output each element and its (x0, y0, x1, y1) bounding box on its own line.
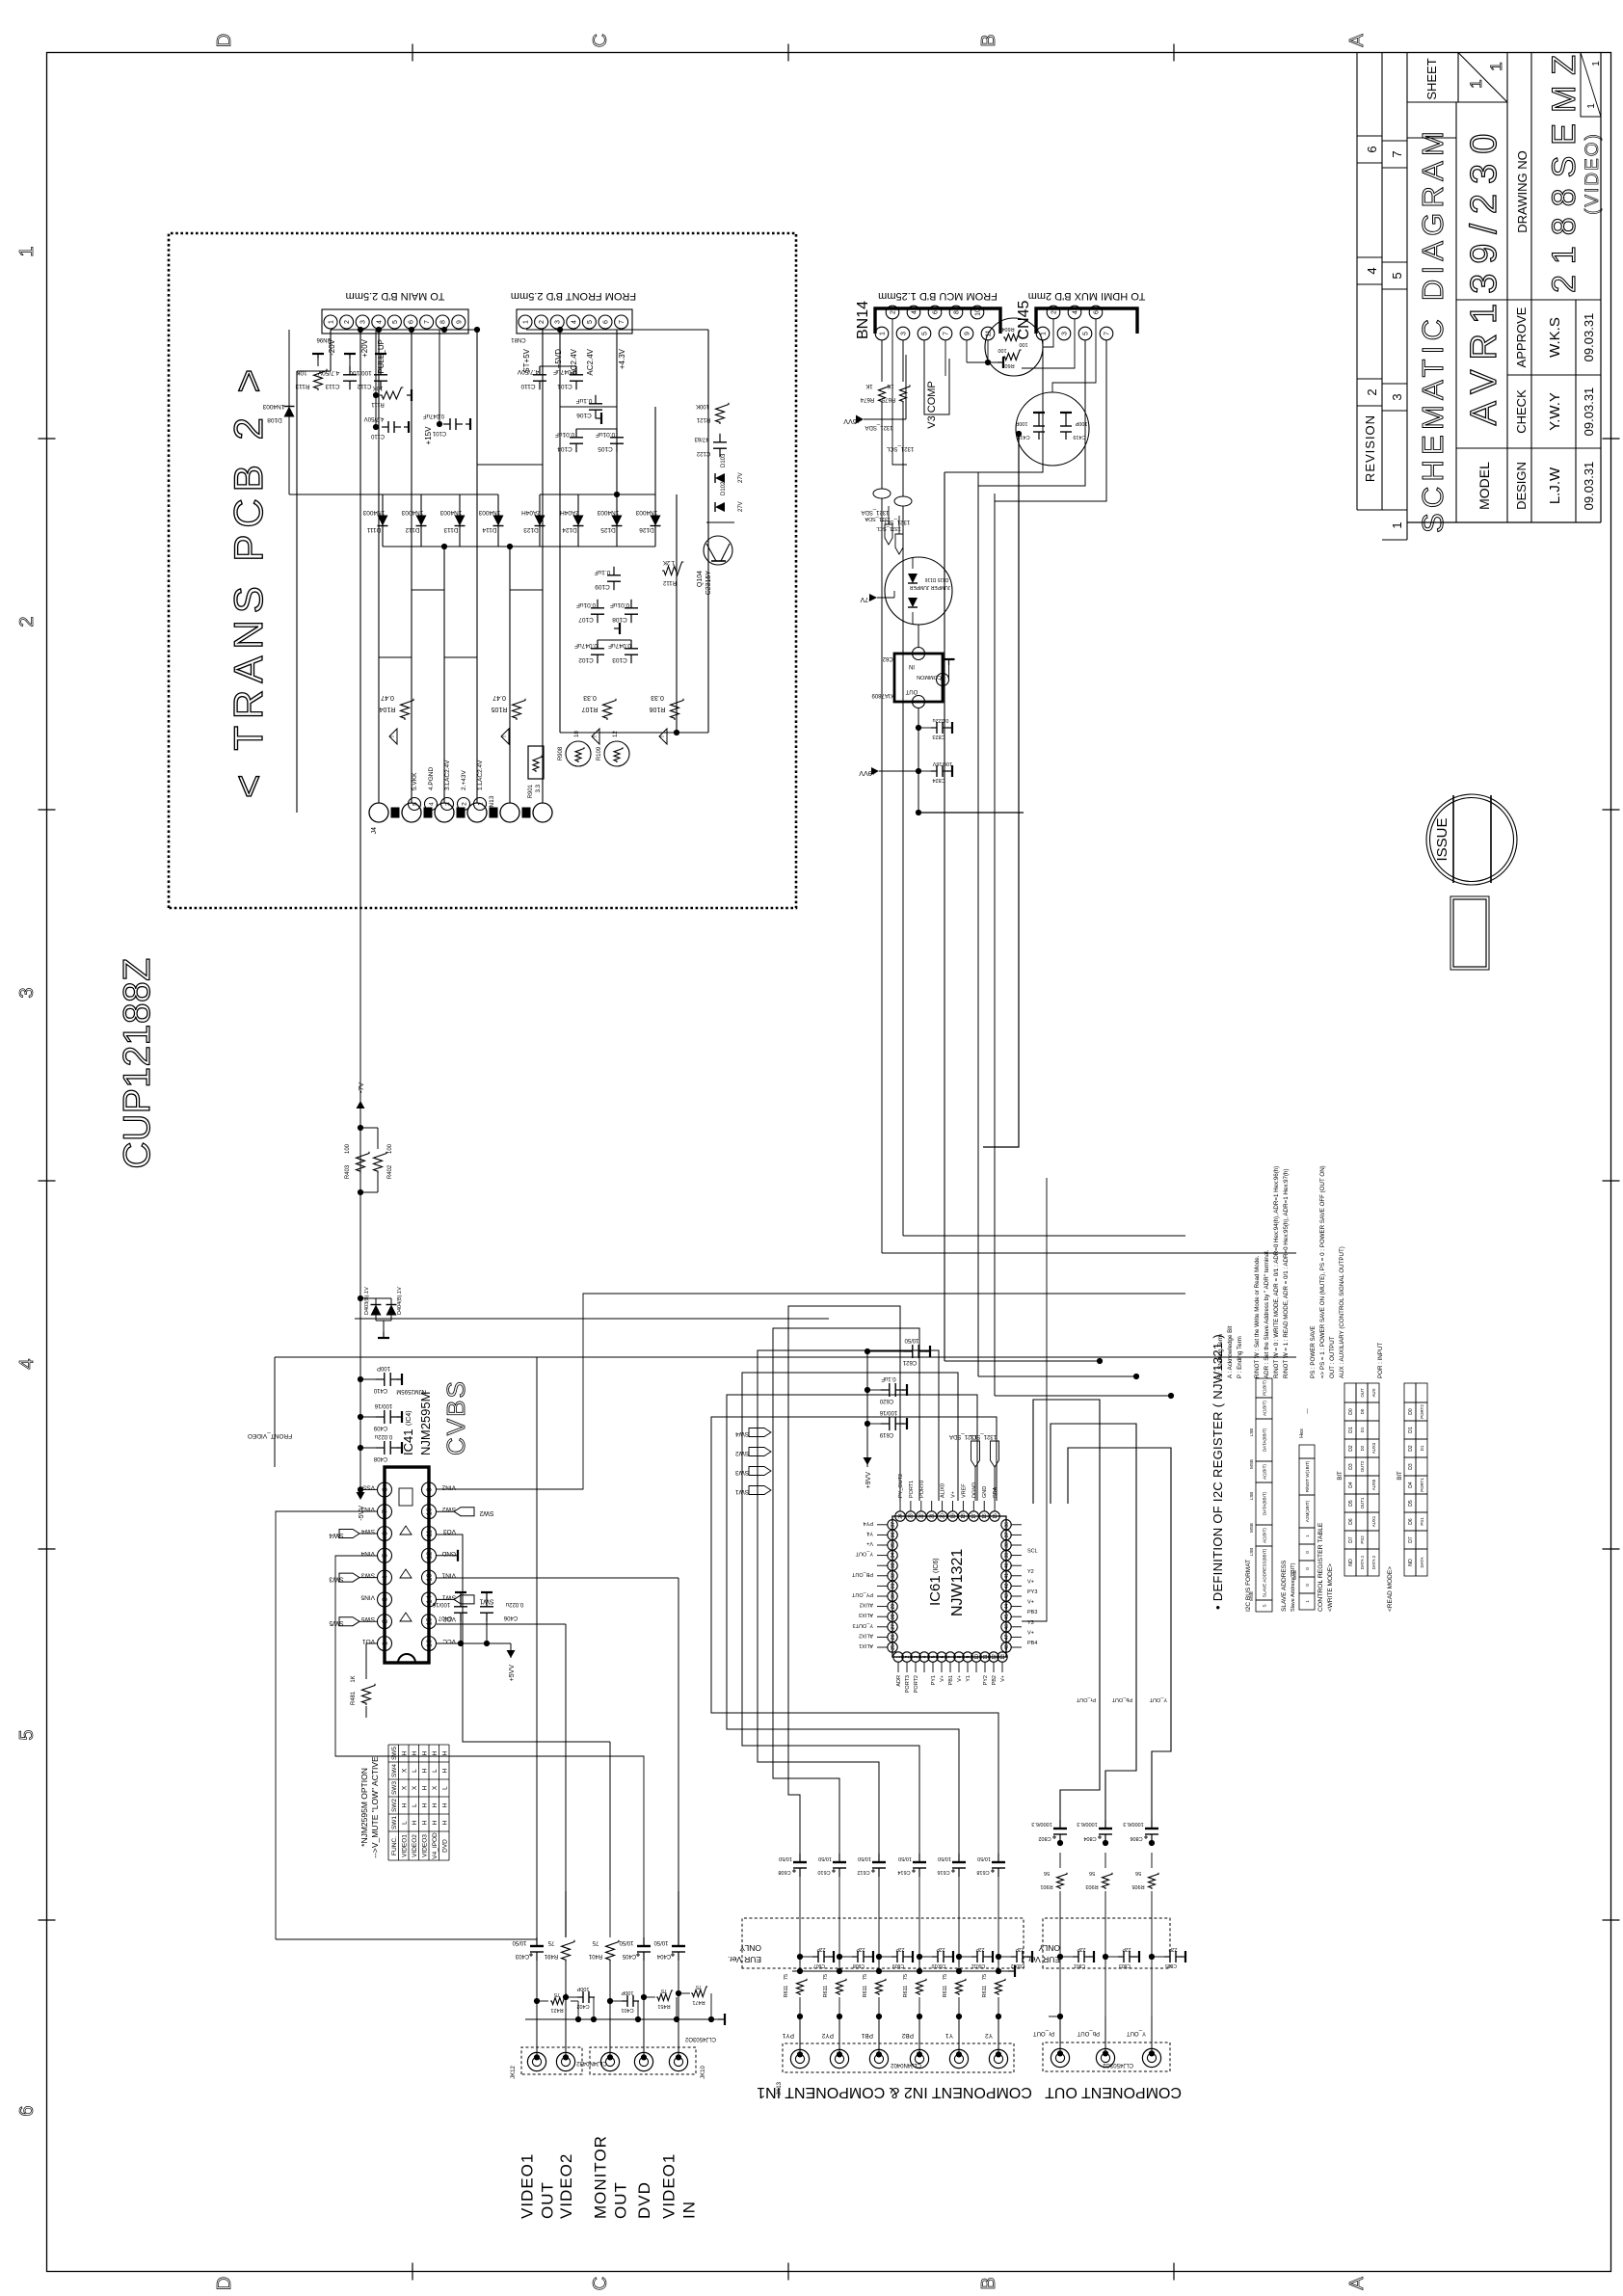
svg-text:R611: R611 (784, 1986, 789, 1998)
svg-text:BN14: BN14 (855, 301, 871, 339)
svg-text:47: 47 (1004, 1634, 1010, 1640)
svg-text:C608: C608 (778, 1869, 790, 1875)
svg-text:D112: D112 (405, 526, 419, 533)
svg-text:-7V: -7V (860, 596, 870, 602)
svg-text:D111: D111 (366, 526, 381, 533)
svg-text:SLAVE ADDRESS(8BIT): SLAVE ADDRESS(8BIT) (1263, 1548, 1267, 1597)
svg-text:POR : INPUT: POR : INPUT (1377, 1343, 1384, 1378)
svg-text:8: 8 (957, 1655, 963, 1658)
svg-text:2A04H: 2A04H (521, 509, 541, 516)
svg-text:AUX : AUXILIARY (CONTROL SIGNA: AUX : AUXILIARY (CONTROL SIGNAL OUTPUT) (1339, 1246, 1345, 1378)
svg-text:26: 26 (891, 1634, 896, 1640)
svg-text:PORT2: PORT2 (1420, 1404, 1424, 1419)
svg-text:1321_SDA: 1321_SDA (865, 424, 892, 430)
svg-text:V+: V+ (940, 1675, 945, 1682)
svg-text:V+: V+ (951, 1491, 957, 1498)
svg-text:9: 9 (965, 332, 971, 335)
svg-text:R903: R903 (1085, 1883, 1098, 1889)
svg-text:3: 3 (917, 700, 922, 704)
svg-text:SW2: SW2 (479, 1509, 493, 1516)
svg-text:2188SEMZ: 2188SEMZ (1546, 44, 1583, 293)
svg-text:100P: 100P (1015, 420, 1027, 426)
svg-text:4.7/50V: 4.7/50V (317, 369, 339, 376)
svg-text:AUX: AUX (1371, 1388, 1376, 1397)
svg-text:DESIGN: DESIGN (1514, 462, 1529, 510)
svg-text:L.J.W: L.J.W (1547, 467, 1563, 504)
svg-text:1: 1 (16, 246, 38, 256)
svg-text:!: ! (389, 735, 396, 737)
svg-text:Y2: Y2 (985, 2032, 993, 2039)
svg-text:PS : POWER SAVE: PS : POWER SAVE (1310, 1325, 1317, 1378)
svg-text:10: 10 (574, 731, 580, 737)
svg-text:22P: 22P (1122, 1946, 1131, 1952)
svg-text:2: 2 (905, 1655, 911, 1658)
svg-text:1K: 1K (865, 383, 872, 388)
svg-text:CLJ4N0432: CLJ4N0432 (575, 2060, 606, 2066)
svg-text:+5VD: +5VD (554, 349, 563, 368)
svg-text:Pb_OUT: Pb_OUT (1077, 2030, 1100, 2036)
svg-text:C110: C110 (520, 383, 535, 389)
svg-text:L: L (412, 1769, 418, 1773)
svg-text:R901: R901 (1040, 1883, 1052, 1889)
svg-text:AVR139/230: AVR139/230 (1464, 124, 1504, 426)
svg-text:A2M(1BIT): A2M(1BIT) (1305, 1500, 1310, 1522)
svg-text:1: 1 (1305, 1600, 1310, 1603)
svg-text:10/50: 10/50 (653, 1939, 669, 1945)
svg-text:36: 36 (891, 1532, 896, 1537)
svg-text:D108: D108 (267, 416, 282, 423)
svg-text:PY2: PY2 (983, 1675, 989, 1685)
svg-text:0: 0 (1305, 1567, 1310, 1570)
svg-text:COMPONENT IN2 & COMPONENT: COMPONENT IN2 & COMPONENT IN1 (757, 2084, 1032, 2100)
svg-text:H: H (442, 1768, 449, 1773)
svg-text:5: 5 (412, 802, 418, 806)
svg-text:L: L (412, 1803, 418, 1807)
svg-text:CHECK: CHECK (1514, 389, 1529, 434)
svg-text:W.K.S: W.K.S (1547, 317, 1563, 358)
svg-text:75: 75 (784, 1974, 789, 1980)
svg-text:SW2: SW2 (391, 1799, 398, 1812)
svg-text:1.2K: 1.2K (663, 559, 675, 565)
svg-text:0.047uF: 0.047uF (574, 642, 598, 649)
svg-text:46: 46 (1004, 1624, 1010, 1630)
svg-text:B: B (978, 34, 999, 46)
svg-text:7: 7 (424, 320, 431, 324)
svg-text:C108: C108 (612, 616, 627, 623)
svg-text:48: 48 (1004, 1644, 1010, 1650)
svg-text:R611: R611 (943, 1986, 948, 1998)
svg-text:1N4003: 1N4003 (262, 403, 284, 410)
svg-text:PB2: PB2 (992, 1675, 998, 1685)
svg-text:D404(B).1V: D404(B).1V (397, 1287, 403, 1315)
svg-text:A: A (1346, 34, 1368, 47)
svg-text:1: 1 (523, 320, 530, 324)
svg-text:0.47: 0.47 (492, 694, 506, 701)
svg-text:Pb_OUT: Pb_OUT (1111, 1696, 1132, 1702)
svg-text:PY_OUT2: PY_OUT2 (898, 1474, 904, 1498)
svg-text:D2: D2 (1360, 1445, 1365, 1451)
svg-text:L: L (402, 1821, 409, 1825)
svg-text:10: 10 (975, 308, 982, 316)
svg-text:D5: D5 (1348, 1500, 1354, 1507)
svg-text:DRAWING NO: DRAWING NO (1515, 150, 1530, 232)
svg-text:MSB: MSB (1249, 1523, 1254, 1533)
svg-text:C102: C102 (578, 656, 594, 663)
svg-text:75: 75 (943, 1974, 948, 1980)
svg-text:7: 7 (1104, 332, 1111, 335)
svg-text:27: 27 (891, 1624, 896, 1630)
svg-text:10/50: 10/50 (898, 1855, 912, 1861)
svg-text:DATA 1: DATA 1 (1360, 1555, 1365, 1569)
svg-text:(IC4): (IC4) (406, 1410, 412, 1426)
svg-text:22P: 22P (936, 1946, 945, 1952)
svg-text:CUP12188Z: CUP12188Z (117, 957, 158, 1168)
svg-text:C805: C805 (1165, 1962, 1177, 1968)
svg-text:EUR Ver.: EUR Ver. (728, 1955, 761, 1964)
svg-text:NJM2595M: NJM2595M (418, 1392, 433, 1455)
svg-text:SCHEMATIC DIAGRAM: SCHEMATIC DIAGRAM (1416, 126, 1450, 533)
svg-text:OUT2: OUT2 (1360, 1460, 1365, 1472)
svg-text:H: H (422, 1802, 429, 1807)
svg-text:OUT : OUTPUT: OUT : OUTPUT (1329, 1336, 1336, 1378)
svg-text:PB3: PB3 (1027, 1610, 1037, 1615)
svg-text:ONLY: ONLY (1038, 1943, 1060, 1953)
svg-text:CLJ4503O2: CLJ4503O2 (1102, 2062, 1133, 2068)
svg-text:LSB: LSB (1249, 1548, 1254, 1557)
svg-text:H: H (432, 1802, 439, 1807)
svg-text:+4.3V: +4.3V (618, 348, 626, 369)
svg-text:BIT: BIT (1338, 1471, 1344, 1481)
svg-text:1000/6.3: 1000/6.3 (1077, 1821, 1097, 1827)
svg-text:2: 2 (16, 616, 38, 627)
svg-text:PORT2: PORT2 (914, 1675, 919, 1693)
svg-text:CLJ4503O2: CLJ4503O2 (684, 2036, 716, 2042)
svg-text:IC41: IC41 (401, 1429, 415, 1455)
svg-text:ALIX0: ALIX0 (941, 1483, 946, 1498)
svg-text:IC62: IC62 (882, 655, 894, 661)
svg-text:C101: C101 (557, 383, 572, 389)
svg-text:10: 10 (974, 1654, 980, 1660)
svg-text:5: 5 (1083, 332, 1090, 335)
svg-text:TO MAIN B'D 2.5mm: TO MAIN B'D 2.5mm (346, 290, 445, 302)
svg-text:VIDEO1: VIDEO1 (660, 2153, 678, 2219)
svg-text:16: 16 (425, 1640, 434, 1647)
svg-text:C: C (590, 34, 611, 47)
svg-text:22P: 22P (975, 1946, 985, 1952)
svg-text:13: 13 (425, 1573, 434, 1581)
svg-text:4: 4 (381, 1576, 389, 1580)
svg-text:R611: R611 (823, 1986, 829, 1998)
svg-text:Y_OUT3: Y_OUT3 (853, 1622, 873, 1628)
svg-text:!: ! (659, 735, 666, 737)
svg-text:13: 13 (1000, 1654, 1006, 1660)
svg-text:C419: C419 (1073, 434, 1085, 440)
svg-text:100P: 100P (377, 1365, 390, 1371)
svg-text:PY1: PY1 (782, 2032, 794, 2039)
svg-text:MODEL: MODEL (1477, 462, 1492, 510)
svg-text:47/63: 47/63 (694, 436, 709, 441)
svg-text:D7: D7 (1408, 1536, 1414, 1543)
svg-text:2: 2 (461, 802, 467, 806)
svg-text:ALIX2: ALIX2 (859, 1632, 873, 1638)
svg-text:23: 23 (909, 1513, 915, 1519)
svg-text:3: 3 (16, 987, 38, 998)
svg-text:H: H (442, 1802, 449, 1807)
svg-text:!: ! (592, 735, 599, 737)
svg-text:6: 6 (409, 320, 415, 324)
svg-text:C608: C608 (853, 1962, 865, 1968)
svg-text:PB1: PB1 (861, 2032, 873, 2039)
svg-text:4.PGND: 4.PGND (428, 766, 435, 790)
svg-text:PY4: PY4 (864, 1520, 873, 1526)
svg-text:V+: V+ (866, 1540, 873, 1546)
svg-text:ADR: ADR (896, 1675, 902, 1687)
svg-text:5: 5 (381, 1554, 389, 1558)
svg-text:LSB: LSB (1249, 1428, 1254, 1437)
svg-text:22P: 22P (895, 1946, 905, 1952)
svg-text:D1: D1 (1348, 1427, 1354, 1433)
svg-text:1: 1 (1041, 332, 1048, 335)
svg-text:C610: C610 (817, 1869, 830, 1875)
svg-text:SW5: SW5 (329, 1619, 343, 1626)
svg-text:DVD: DVD (442, 1839, 449, 1853)
svg-text:D103: D103 (721, 453, 727, 467)
svg-text:C2315Y: C2315Y (705, 571, 712, 596)
svg-text:V+: V+ (1000, 1675, 1006, 1682)
svg-text:09.03.31: 09.03.31 (1582, 387, 1596, 437)
svg-text:0.47: 0.47 (381, 694, 394, 701)
svg-text:20: 20 (940, 1513, 945, 1519)
svg-text:PORT1: PORT1 (909, 1481, 915, 1498)
svg-text:C104: C104 (557, 445, 572, 452)
svg-text:100: 100 (1019, 341, 1027, 347)
svg-text:1321_SCL: 1321_SCL (886, 445, 914, 451)
svg-text:33: 33 (891, 1562, 896, 1568)
svg-text:R611: R611 (982, 1986, 988, 1998)
svg-text:Pr_OUT: Pr_OUT (1076, 1696, 1096, 1702)
svg-text:1: 1 (896, 1655, 902, 1658)
svg-text:9: 9 (425, 1487, 434, 1491)
svg-text:R/NOT W = 1 : READ MODE, ADR: R/NOT W = 1 : READ MODE, ADR = 0/1 : ADR… (1283, 1168, 1290, 1378)
svg-text:1N4003: 1N4003 (635, 509, 657, 516)
svg-text:1N4003: 1N4003 (362, 509, 385, 516)
svg-text:1: 1 (1467, 79, 1485, 88)
svg-text:Y_OUT: Y_OUT (1127, 2030, 1146, 2036)
svg-text:SW3: SW3 (391, 1781, 398, 1795)
svg-text:1: 1 (329, 320, 335, 324)
svg-text:C101: C101 (432, 430, 446, 436)
svg-text:C620: C620 (879, 1398, 893, 1403)
svg-text:DATA: DATA (1420, 1557, 1424, 1567)
svg-text:VIDEO1: VIDEO1 (402, 1834, 409, 1857)
svg-text:27V: 27V (738, 501, 744, 512)
svg-text:VIDEO1: VIDEO1 (519, 2153, 537, 2219)
svg-text:SHEET: SHEET (1424, 58, 1439, 99)
svg-text:6: 6 (1094, 310, 1101, 314)
svg-text:AC2.4V: AC2.4V (586, 348, 595, 375)
svg-text:MONITOR: MONITOR (592, 2135, 610, 2219)
svg-text:22P: 22P (1168, 1946, 1178, 1952)
svg-text:D1: D1 (1408, 1427, 1414, 1433)
svg-text:NJM2595M: NJM2595M (396, 1388, 426, 1394)
svg-text:H: H (412, 1750, 418, 1755)
svg-text:D0: D0 (1408, 1408, 1414, 1415)
svg-text:R112: R112 (662, 579, 677, 585)
svg-text:KIA7809: KIA7809 (871, 692, 894, 698)
svg-text:1: 1 (1591, 61, 1602, 67)
svg-text:3: 3 (555, 320, 562, 324)
svg-text:40: 40 (1004, 1562, 1010, 1568)
svg-text:1000/6.3: 1000/6.3 (1031, 1821, 1051, 1827)
svg-text:COMPONENT OUT: COMPONENT OUT (1045, 2084, 1182, 2100)
svg-text:22P: 22P (856, 1946, 865, 1952)
svg-text:12: 12 (425, 1552, 434, 1560)
svg-text:11: 11 (425, 1530, 434, 1537)
svg-text:PY1: PY1 (931, 1675, 937, 1685)
svg-text:C804: C804 (1083, 1835, 1096, 1841)
svg-text:=> PS = 1 : POWER SAVE ON (MUT: => PS = 1 : POWER SAVE ON (MUTE), PS = 0… (1319, 1165, 1326, 1378)
svg-text:PS2: PS2 (1360, 1535, 1365, 1544)
svg-text:R109: R109 (597, 746, 602, 761)
svg-text:10/50: 10/50 (904, 1337, 919, 1343)
svg-text:R421: R421 (550, 2007, 563, 2013)
svg-text:R451: R451 (657, 2003, 670, 2009)
svg-text:R901: R901 (528, 784, 534, 798)
svg-text:R107: R107 (582, 706, 599, 712)
svg-text:-20V: -20V (328, 338, 336, 356)
svg-text:R402: R402 (387, 1164, 393, 1179)
svg-text:4: 4 (16, 1358, 38, 1369)
svg-text:75: 75 (863, 1974, 868, 1980)
svg-text:36: 36 (1004, 1522, 1010, 1528)
svg-text:0: 0 (1305, 1551, 1310, 1554)
svg-text:3: 3 (444, 802, 451, 806)
svg-text:2: 2 (891, 310, 897, 314)
svg-text:PORT0: PORT0 (919, 1481, 925, 1498)
svg-text:C409: C409 (373, 1425, 387, 1430)
svg-text:C105: C105 (598, 445, 613, 452)
svg-text:MSB: MSB (1292, 1570, 1297, 1580)
svg-text:PS1: PS1 (1420, 1517, 1424, 1526)
svg-text:12: 12 (992, 1654, 998, 1660)
svg-text:D3: D3 (1408, 1463, 1414, 1470)
svg-text:C6012: C6012 (1010, 1962, 1024, 1968)
svg-text:1: 1 (477, 802, 484, 806)
svg-text:2A04H: 2A04H (560, 509, 579, 516)
svg-text:VO3: VO3 (443, 1528, 456, 1535)
svg-text:V3 COMP: V3 COMP (926, 381, 938, 429)
svg-text:5.VKK: 5.VKK (412, 772, 418, 790)
svg-text:FROM MCU B'D 1.25mm: FROM MCU B'D 1.25mm (878, 290, 998, 302)
svg-text:Y_OUT: Y_OUT (855, 1551, 873, 1557)
svg-text:R121: R121 (696, 416, 710, 422)
svg-text:C823: C823 (932, 734, 945, 739)
svg-text:09.03.31: 09.03.31 (1582, 313, 1596, 362)
svg-text:0.1uF: 0.1uF (881, 1375, 896, 1381)
svg-text:FUNC.: FUNC. (391, 1836, 398, 1855)
svg-text:56: 56 (1044, 1870, 1050, 1876)
svg-text:6: 6 (603, 320, 610, 324)
svg-text:+9VV: +9VV (859, 769, 876, 776)
svg-text:0.33: 0.33 (651, 694, 664, 701)
svg-text:09.03.31: 09.03.31 (1582, 462, 1596, 511)
svg-text:C618: C618 (976, 1869, 989, 1875)
svg-text:34: 34 (891, 1553, 896, 1559)
svg-text:IC61: IC61 (927, 1575, 944, 1606)
svg-text:EUR Ver.: EUR Ver. (1026, 1955, 1060, 1964)
svg-text:1: 1 (1305, 1535, 1310, 1537)
svg-text:CN13: CN13 (489, 795, 495, 812)
svg-text:2: 2 (539, 320, 545, 324)
svg-text:2: 2 (1051, 310, 1058, 314)
svg-text:<WRITE MODE>: <WRITE MODE> (1327, 1563, 1334, 1612)
svg-text:PY3: PY3 (1027, 1589, 1037, 1595)
svg-text:2: 2 (1365, 388, 1379, 395)
svg-text:TO HDMI MUX B'D 2mm: TO HDMI MUX B'D 2mm (1028, 290, 1146, 302)
svg-text:C106: C106 (576, 412, 592, 418)
svg-text:C107: C107 (578, 616, 594, 623)
svg-text:V+: V+ (1027, 1600, 1034, 1606)
svg-text:R/NOT W = 0 : WRITE MODE, ADR: R/NOT W = 0 : WRITE MODE, ADR = 0/1 : AD… (1273, 1166, 1280, 1378)
svg-text:D6: D6 (1408, 1518, 1414, 1525)
svg-text:75: 75 (547, 1939, 554, 1945)
svg-text:1: 1 (917, 652, 922, 655)
svg-text:C406: C406 (503, 1615, 518, 1620)
svg-text:Q104: Q104 (697, 571, 704, 587)
svg-text:1: 1 (1390, 521, 1404, 528)
svg-text:C403: C403 (515, 1953, 529, 1959)
svg-text:Y2: Y2 (1027, 1569, 1034, 1575)
svg-text:+5VV: +5VV (509, 1665, 516, 1682)
svg-text:R/NOT W(1BIT): R/NOT W(1BIT) (1305, 1460, 1310, 1492)
svg-text:C612: C612 (857, 1869, 869, 1875)
svg-text:P(1BIT): P(1BIT) (1263, 1380, 1267, 1396)
svg-text:3.3: 3.3 (536, 784, 542, 792)
svg-text:D102: D102 (721, 481, 727, 495)
svg-text:21: 21 (930, 1513, 936, 1519)
svg-text:2: 2 (344, 320, 351, 324)
svg-text:D7: D7 (1348, 1536, 1354, 1543)
svg-text:0.047uF: 0.047uF (423, 413, 444, 418)
svg-text:PORT3: PORT3 (905, 1675, 911, 1693)
svg-text:45: 45 (1004, 1614, 1010, 1619)
svg-text:C407: C407 (438, 1615, 452, 1620)
svg-text:Hex: Hex (1299, 1428, 1305, 1438)
svg-text:D114: D114 (482, 526, 496, 533)
svg-text:3: 3 (901, 332, 908, 335)
svg-text:H: H (402, 1802, 409, 1807)
svg-text:JK10: JK10 (701, 2066, 706, 2079)
svg-text:B: B (978, 2277, 999, 2289)
svg-text:R674: R674 (860, 396, 874, 402)
svg-text:AUX5: AUX5 (1371, 1479, 1376, 1490)
svg-text:OUT: OUT (612, 2181, 630, 2219)
svg-text:—: — (1305, 1408, 1311, 1414)
svg-text:IN: IN (680, 2201, 699, 2219)
svg-text:7: 7 (619, 320, 625, 324)
svg-text:0.047uF: 0.047uF (553, 368, 576, 375)
svg-text:30: 30 (891, 1593, 896, 1599)
svg-text:9: 9 (966, 1655, 971, 1658)
svg-text:7: 7 (944, 332, 950, 335)
svg-text:10/50: 10/50 (512, 1939, 527, 1945)
svg-text:C619: C619 (879, 1431, 893, 1437)
svg-text:100: 100 (345, 1143, 351, 1154)
svg-text:56: 56 (1135, 1870, 1141, 1876)
svg-text:43: 43 (1004, 1593, 1010, 1599)
svg-text:3: 3 (360, 320, 367, 324)
svg-text:75: 75 (661, 1988, 667, 1993)
